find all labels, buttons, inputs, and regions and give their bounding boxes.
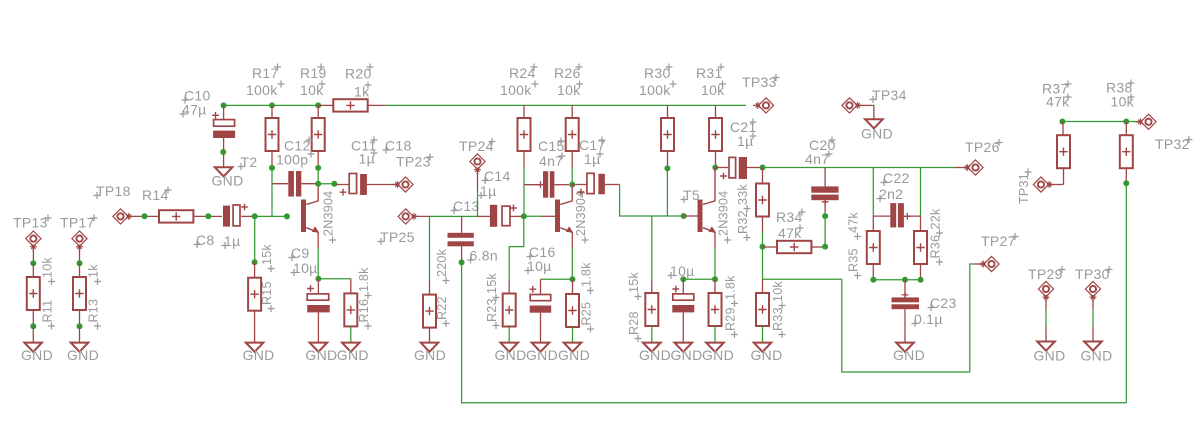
svg-text:C8: C8	[196, 232, 215, 248]
junction R34 left	[760, 244, 766, 250]
label R20	[345, 64, 374, 82]
wire emitter to C16	[541, 279, 573, 294]
svg-text:R13: R13	[87, 299, 101, 323]
junction R11 top	[30, 260, 36, 266]
wire C20 to R34	[824, 212, 826, 247]
svg-text:1µ: 1µ	[224, 233, 240, 249]
label GND R22	[414, 347, 446, 363]
svg-text:15k: 15k	[485, 273, 499, 294]
junction R37 top	[1059, 119, 1065, 125]
label C13	[451, 198, 480, 214]
wire emitter to C19	[683, 278, 715, 280]
svg-text:GND: GND	[494, 347, 526, 363]
label R14	[142, 187, 172, 204]
resistor R28	[645, 293, 658, 343]
label GND TP29	[1033, 348, 1065, 364]
label R11	[41, 300, 56, 330]
label R35 value	[847, 212, 862, 240]
svg-text:TP29: TP29	[1028, 266, 1063, 282]
svg-text:GND: GND	[639, 347, 671, 363]
label C12	[284, 137, 313, 154]
wire TP25 to C14	[413, 215, 477, 217]
wire Q3 emitter	[714, 248, 716, 279]
ground TP34	[865, 119, 883, 128]
junction Q2 emitter	[570, 276, 576, 282]
junction Q2 base node	[521, 213, 527, 219]
svg-text:C18: C18	[385, 138, 412, 154]
junction R19 bottom	[315, 165, 321, 171]
label Q2 value	[574, 191, 589, 244]
label C15 value	[539, 153, 566, 170]
label R33 value	[771, 281, 786, 309]
svg-text:15k: 15k	[260, 244, 274, 265]
label R25	[580, 302, 595, 333]
svg-text:TP25: TP25	[380, 229, 415, 245]
test point TP25	[398, 209, 419, 224]
resistor R33	[756, 279, 769, 342]
wire filter bottom node	[873, 279, 920, 281]
label GND C23	[893, 347, 925, 363]
junction C23 top	[902, 277, 908, 283]
svg-text:100k: 100k	[246, 82, 278, 98]
wire node to R33	[762, 247, 764, 280]
label R34	[776, 209, 806, 226]
label C19 value	[668, 263, 695, 279]
label R34 value	[778, 225, 804, 242]
label TP25	[378, 229, 415, 245]
label TP27	[981, 233, 1019, 249]
svg-text:TP33: TP33	[742, 74, 777, 90]
ground C19	[675, 343, 693, 352]
label R33	[771, 307, 786, 338]
svg-text:C23: C23	[930, 295, 957, 311]
junction C11 in	[331, 181, 337, 187]
wire R13 to ground	[79, 326, 81, 342]
resistor R19	[312, 105, 325, 167]
label C12 value	[276, 151, 315, 168]
resistor R17	[266, 105, 279, 167]
capacitor C13	[448, 216, 474, 262]
label C14 value	[478, 183, 497, 199]
label R19	[300, 64, 327, 82]
label R26	[554, 64, 583, 82]
test point TP32	[1136, 114, 1157, 129]
label R13 value	[87, 264, 102, 285]
resistor R31	[709, 105, 722, 167]
wire TP30 to ground	[1092, 298, 1094, 342]
label C17 value	[584, 151, 604, 168]
test point TP13	[26, 231, 41, 252]
junction Q1 collector	[315, 181, 321, 187]
svg-text:0.1µ: 0.1µ	[914, 311, 943, 327]
wire Q2 emitter	[571, 248, 573, 279]
wire R23 jog	[509, 216, 524, 293]
junction R13 bottom	[77, 323, 83, 329]
label R35	[847, 248, 862, 279]
label R38	[1106, 80, 1135, 96]
label TP13	[13, 215, 52, 231]
label R37 value	[1046, 94, 1072, 110]
wire filter output run	[763, 167, 969, 169]
svg-text:R25: R25	[580, 302, 594, 326]
wire R22 drop	[429, 216, 431, 294]
svg-text:R16: R16	[357, 299, 371, 323]
wire R36 top drop	[920, 168, 922, 217]
label TP34	[870, 87, 907, 103]
label C14	[482, 168, 511, 184]
junction R17 bottom	[269, 165, 275, 171]
label C15	[538, 138, 565, 155]
svg-text:10k: 10k	[771, 281, 785, 302]
junction R15 top	[252, 259, 258, 265]
test point TP17	[72, 231, 87, 252]
junction TP18 node	[142, 213, 148, 219]
label C10	[182, 88, 211, 104]
svg-text:47k: 47k	[1046, 94, 1070, 110]
junction C19 top	[680, 276, 686, 282]
resistor R32	[756, 168, 769, 232]
label R29	[724, 307, 739, 338]
svg-text:R35: R35	[847, 248, 861, 272]
label TP24	[459, 138, 496, 154]
svg-text:C9: C9	[291, 245, 310, 261]
capacitor C11	[336, 174, 397, 196]
label GND T2	[211, 173, 243, 189]
svg-text:GND: GND	[526, 347, 558, 363]
resistor R23	[503, 294, 516, 343]
label C13 value	[467, 248, 498, 264]
transistor Q3 2N3904	[684, 168, 716, 249]
svg-text:R32: R32	[736, 210, 750, 234]
ground C9	[310, 343, 328, 352]
svg-text:1.8k: 1.8k	[724, 275, 738, 300]
junction Q1 base	[284, 213, 290, 219]
label R13	[87, 299, 102, 330]
label C9 value	[291, 260, 318, 276]
test point TP26	[963, 160, 984, 175]
wire TP24 drop	[477, 169, 479, 216]
junction R14 out	[205, 213, 211, 219]
junction Q3 collector	[712, 165, 718, 171]
junction C10 top	[221, 102, 227, 108]
wire R17 to base	[271, 168, 273, 217]
label TP26	[965, 139, 1003, 155]
label GND R33	[750, 347, 782, 363]
label C16 value	[525, 258, 552, 274]
svg-text:R22: R22	[435, 296, 449, 320]
resistor R24	[518, 105, 531, 167]
label R29 value	[724, 275, 739, 307]
test point TP23	[393, 177, 414, 192]
junction R19 top	[315, 102, 321, 108]
wire R30 to base	[666, 168, 668, 216]
svg-text:GND: GND	[670, 347, 702, 363]
test point TP18	[113, 209, 134, 224]
resistor R25	[566, 279, 579, 342]
label R25 value	[580, 262, 595, 294]
label GND R11	[21, 347, 53, 363]
capacitor C8	[223, 204, 255, 227]
junction Q1 emitter	[315, 276, 321, 282]
resistor R35	[867, 216, 880, 280]
wire R37 to TP31	[1049, 184, 1064, 186]
label R15 value	[260, 244, 275, 272]
label R31	[696, 64, 725, 82]
capacitor C17	[572, 173, 619, 195]
junction Q3 base	[681, 213, 687, 219]
label R30 value	[639, 81, 677, 99]
label GND TP34	[861, 126, 893, 142]
transistor Q2 2N3904	[555, 185, 573, 249]
junction C20 bottom	[822, 213, 828, 219]
transistor Q1 2N3904	[301, 184, 319, 248]
svg-text:GND: GND	[211, 173, 243, 189]
junction Q2 collector	[569, 182, 575, 188]
wire TP13 to R11	[32, 247, 34, 264]
label R28	[627, 311, 642, 342]
junction R11 bottom	[30, 323, 36, 329]
ground TP30	[1084, 342, 1102, 351]
svg-text:R28: R28	[627, 311, 641, 335]
svg-text:R29: R29	[724, 307, 738, 331]
test point TP29	[1038, 281, 1053, 302]
junction R34 right	[822, 244, 828, 250]
svg-text:C14: C14	[484, 168, 511, 184]
label TP32	[1155, 136, 1193, 152]
junction R36 bottom	[918, 277, 924, 283]
svg-text:R36: R36	[929, 235, 943, 259]
label R15	[260, 281, 275, 312]
svg-text:TP27: TP27	[981, 233, 1016, 249]
label R28 value	[627, 272, 642, 300]
label T5	[681, 187, 700, 203]
label TP18	[94, 183, 131, 199]
svg-text:C13: C13	[453, 198, 480, 214]
svg-text:TP18: TP18	[96, 183, 131, 199]
svg-text:10µ: 10µ	[527, 258, 552, 274]
wire emitter to R16	[318, 279, 350, 294]
resistor R30	[661, 105, 674, 165]
svg-text:GND: GND	[305, 347, 337, 363]
capacitor C21	[715, 157, 762, 179]
wire R19 to collector	[317, 168, 319, 184]
wire TP34 to ground	[858, 105, 874, 119]
wire R11 to ground	[32, 326, 34, 342]
ground R11	[24, 343, 42, 352]
wire supply rail stage2-3	[386, 104, 746, 106]
resistor R13	[73, 263, 86, 326]
svg-text:47µ: 47µ	[182, 102, 207, 118]
wire node to R15	[254, 216, 256, 262]
ground C23	[896, 343, 914, 352]
test point TP34	[842, 98, 863, 113]
svg-text:1k: 1k	[87, 264, 101, 278]
svg-text:TP32: TP32	[1155, 136, 1190, 152]
ground R23	[500, 343, 518, 352]
svg-text:R33: R33	[771, 307, 785, 331]
ground T2	[215, 167, 233, 176]
label R36	[929, 235, 944, 266]
svg-text:T5: T5	[683, 187, 700, 203]
svg-text:100p: 100p	[276, 152, 308, 168]
svg-text:10µ: 10µ	[293, 260, 318, 276]
test point TP24	[470, 154, 485, 175]
svg-text:1.8k: 1.8k	[357, 267, 371, 292]
svg-text:10µ: 10µ	[670, 263, 695, 279]
svg-text:1µ: 1µ	[480, 183, 496, 199]
resistor R20	[318, 99, 385, 111]
wire C8 to base	[255, 215, 287, 217]
svg-text:GND: GND	[702, 347, 734, 363]
label R20 value	[354, 82, 372, 100]
label Q1 value	[322, 191, 337, 244]
label C22 value	[877, 186, 904, 202]
capacitor C23	[892, 280, 920, 343]
svg-text:GND: GND	[414, 347, 446, 363]
label TP17	[60, 215, 98, 231]
svg-text:R23: R23	[485, 298, 499, 322]
svg-text:100k: 100k	[500, 82, 532, 98]
wire Q1 emitter	[317, 248, 319, 279]
label C16	[527, 244, 556, 260]
wire supply rail stage1	[224, 104, 319, 106]
capacitor C15	[524, 171, 569, 198]
svg-text:GND: GND	[861, 126, 893, 142]
svg-text:TP24: TP24	[459, 138, 494, 154]
wire collector to C11	[318, 183, 336, 185]
svg-text:GND: GND	[1080, 348, 1112, 364]
capacitor C12	[272, 171, 318, 197]
svg-text:22k: 22k	[929, 208, 943, 229]
label R38 value	[1111, 94, 1135, 110]
ground TP29	[1037, 342, 1055, 351]
resistor R15	[248, 262, 261, 342]
wire R37 R38 top	[1063, 121, 1140, 123]
svg-text:R15: R15	[260, 281, 274, 305]
capacitor C22	[873, 203, 920, 227]
svg-text:100k: 100k	[639, 82, 671, 98]
junction C10 bottom	[220, 149, 226, 155]
resistor R26	[566, 105, 579, 167]
label R37	[1042, 81, 1072, 97]
svg-text:GND: GND	[558, 347, 590, 363]
label R30	[644, 64, 673, 82]
capacitor C19	[672, 279, 694, 342]
svg-text:R11: R11	[41, 300, 55, 323]
test point TP30	[1085, 281, 1100, 302]
label C9	[289, 245, 310, 261]
svg-text:T2: T2	[241, 154, 258, 170]
capacitor C16	[529, 286, 551, 343]
svg-text:GND: GND	[67, 347, 99, 363]
svg-text:1.8k: 1.8k	[580, 262, 594, 287]
junction C13 bottom	[459, 259, 465, 265]
svg-text:2n2: 2n2	[879, 186, 903, 202]
wire C17 to Q3 base	[620, 185, 684, 217]
label R26 value	[557, 81, 583, 99]
wire TP27 loop	[842, 264, 984, 372]
label Q3 value	[717, 191, 732, 244]
svg-text:6.8n: 6.8n	[470, 248, 498, 264]
ground R29	[706, 343, 724, 352]
svg-text:R20: R20	[345, 66, 372, 82]
capacitor C20	[811, 168, 838, 213]
label C22	[881, 170, 910, 186]
label C10 value	[180, 102, 207, 118]
wire R33 branch	[763, 278, 842, 280]
label R24	[509, 64, 538, 82]
label GND R13	[67, 347, 99, 363]
label C20	[809, 137, 836, 154]
ground R22	[421, 343, 439, 352]
svg-text:47k: 47k	[847, 212, 861, 233]
wire R32 to R34	[762, 232, 764, 247]
test point TP31	[1033, 177, 1054, 192]
capacitor C9	[307, 279, 330, 343]
capacitor C14	[477, 205, 523, 227]
junction R17 top	[269, 102, 275, 108]
label C21	[730, 119, 757, 136]
svg-text:GND: GND	[1033, 348, 1065, 364]
svg-text:GND: GND	[337, 347, 369, 363]
label GND C9 R16	[305, 347, 368, 363]
label R22 value	[435, 248, 450, 284]
svg-text:2N3904: 2N3904	[322, 191, 336, 236]
wire R14 to C8	[193, 215, 222, 217]
resistor R29	[709, 279, 722, 342]
svg-text:10k: 10k	[41, 257, 55, 278]
label C23	[928, 295, 957, 311]
junction R13 top	[77, 260, 83, 266]
label R24 value	[500, 81, 539, 99]
label C17	[579, 137, 606, 154]
svg-text:33k: 33k	[736, 184, 750, 205]
resistor R36	[914, 216, 927, 280]
svg-text:GND: GND	[893, 347, 925, 363]
svg-text:TP30: TP30	[1075, 266, 1110, 282]
svg-text:2N3904: 2N3904	[717, 191, 731, 236]
resistor R34	[763, 241, 826, 253]
ground R15	[246, 343, 264, 352]
resistor R22	[423, 295, 436, 343]
ground C16	[532, 343, 550, 352]
resistor R38	[1120, 122, 1133, 184]
wire TP17 to R13	[79, 247, 81, 264]
junction R35 bottom	[870, 277, 876, 283]
wire R28 drop	[651, 216, 653, 293]
svg-text:TP26: TP26	[965, 139, 1000, 155]
label R17 value	[246, 81, 285, 99]
svg-text:GND: GND	[243, 347, 275, 363]
label R36 value	[929, 208, 944, 236]
label R23	[485, 298, 500, 329]
label GND row stage3	[639, 347, 734, 363]
wire R26 to collector	[571, 168, 573, 185]
ground R25	[564, 343, 582, 352]
test point TP27	[979, 256, 1000, 271]
label R23 value	[485, 273, 500, 301]
svg-text:TP13: TP13	[13, 215, 48, 231]
wire feedback loop	[462, 183, 1127, 402]
label GND R15	[243, 347, 275, 363]
junction Q3 emitter	[712, 276, 718, 282]
ground R28	[643, 343, 661, 352]
svg-text:TP31: TP31	[1017, 173, 1031, 204]
label C8 value	[222, 233, 241, 249]
label TP23	[396, 154, 434, 170]
ground R16	[342, 343, 360, 352]
label R32 value	[736, 184, 751, 212]
